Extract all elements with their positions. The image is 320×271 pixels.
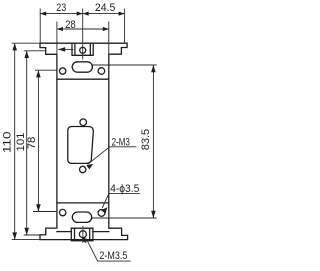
dim line 110 [14, 43, 16, 239]
ext 101 bottom [24, 234, 46, 236]
ext 78 top [35, 69, 57, 71]
ext line 28 right [108, 22, 110, 55]
leader 2-M3 [88, 147, 137, 165]
dim line 78 [37, 70, 39, 211]
dim line 83.5 [152, 65, 154, 218]
ext 78 bottom [33, 211, 57, 213]
bottom tab outer [71, 228, 93, 241]
top tab [72, 43, 93, 55]
svg-text:23: 23 [56, 2, 66, 14]
top tab inner left edge [74, 43, 76, 55]
top hole left [60, 68, 66, 74]
bottom slot obround [72, 212, 91, 222]
dim line 101 [26, 51, 28, 235]
svg-text:4-ϕ3.5: 4-ϕ3.5 [110, 183, 139, 195]
arrowheads dim 83.5 [151, 65, 156, 72]
arrowheads dim 110 [12, 43, 17, 50]
D-sub cutout [68, 127, 94, 164]
leader 2-M3.5 [86, 239, 130, 262]
bottom tab hole centreline [82, 226, 84, 243]
top tab inner right edge [89, 43, 91, 55]
ext 110 top [12, 42, 40, 44]
bottom clip stub left [57, 231, 71, 233]
ext 83.5 bottom [92, 217, 157, 219]
top tab hole M3.5 [80, 47, 86, 53]
arrowheads dim 101 [24, 51, 29, 58]
svg-text:110: 110 [2, 131, 14, 153]
bottom tab inner left edge [74, 228, 76, 241]
bracket outline [40, 43, 128, 239]
ext line 23 left [39, 9, 41, 44]
dim line 28 [57, 28, 109, 30]
arrowheads dim 78 [36, 70, 41, 77]
panel line bottom [57, 202, 109, 204]
M3 hole above D-sub [80, 119, 87, 126]
bottom clip stub right [93, 231, 109, 233]
ext line 24.5 right [124, 9, 126, 44]
M3 hole below D-sub [80, 166, 86, 172]
svg-text:83.5: 83.5 [140, 129, 152, 151]
ext line 28 left [56, 22, 58, 55]
top hole right [98, 68, 105, 75]
panel line top [57, 78, 109, 80]
ext 101 top [24, 50, 46, 52]
ext line 23/24.5 shared + tab hole centreline [82, 9, 84, 60]
ext 83.5 top [93, 64, 157, 66]
svg-text:28: 28 [65, 19, 76, 31]
bottom hole right phi3.5 [98, 210, 105, 217]
svg-text:2-M3: 2-M3 [112, 137, 130, 149]
bottom hole left [60, 209, 66, 215]
arrowhead leader 4-phi3.5 [101, 207, 107, 214]
bottom tab top line [71, 227, 93, 229]
arrowhead leader 2-M3 [86, 164, 93, 170]
arrow 28-left tail [58, 48, 73, 50]
arrowhead mystery left [58, 47, 65, 52]
arrowheads dim 28 [57, 27, 63, 31]
leader 4-phi3.5 [102, 194, 140, 208]
ext 110 bottom [12, 239, 40, 241]
bottom tab inner right edge [89, 228, 91, 241]
top slot obround [72, 62, 92, 72]
svg-text:2-M3.5: 2-M3.5 [99, 250, 127, 262]
svg-text:24.5: 24.5 [95, 2, 116, 14]
svg-text:78: 78 [26, 137, 38, 150]
arrowheads dim 24.5 [83, 12, 89, 16]
bottom tab hole M3.5 [79, 231, 86, 238]
dim line 23/24.5 [40, 13, 124, 15]
arrowhead leader 2-M3.5 [81, 236, 87, 243]
arrowheads dim 23 [40, 12, 46, 16]
